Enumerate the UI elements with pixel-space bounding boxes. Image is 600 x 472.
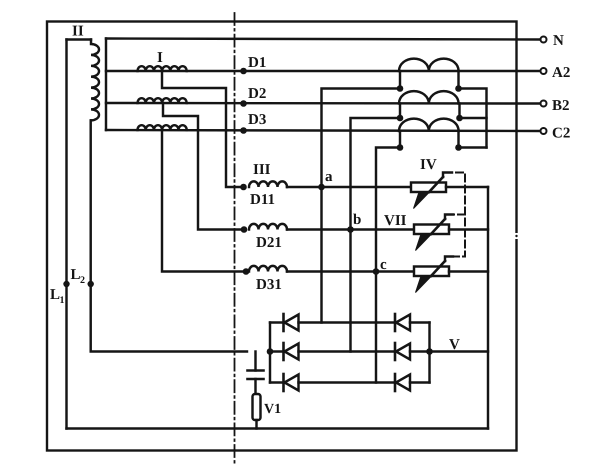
node a	[318, 169, 333, 190]
transformer T2 winding on B2	[397, 91, 463, 121]
mechanical gang coupling (dashed)	[453, 173, 465, 257]
terminal A2	[541, 65, 571, 81]
node V output	[426, 337, 488, 355]
svg-text:1: 1	[60, 295, 65, 306]
wire L2 line (winding II to rectifier)	[91, 121, 247, 352]
diode V1c (left stack bottom)	[270, 374, 395, 391]
node D1	[240, 55, 266, 74]
svg-text:III: III	[253, 162, 271, 178]
inductor I phase coil 2	[138, 98, 187, 103]
resistor V1	[253, 394, 282, 429]
svg-text:D11: D11	[250, 192, 275, 208]
wire varistor IV right lead	[446, 186, 488, 188]
inductor I phase coil 1	[138, 50, 187, 71]
wire node a to rectifier row 1	[320, 187, 322, 323]
svg-text:V1: V1	[264, 402, 281, 417]
wire node c to rectifier row 3	[375, 272, 377, 383]
capacitor C (filter)	[248, 352, 264, 395]
wire T3 left lead to node c	[376, 148, 400, 272]
diode V2c (right stack bottom)	[395, 374, 430, 391]
diode V2b (right stack middle)	[395, 343, 430, 360]
svg-text:II: II	[72, 24, 84, 40]
svg-text:L: L	[50, 287, 60, 303]
wire varistor VII right lead	[449, 228, 488, 230]
wire node b to rectifier row 2	[349, 230, 351, 352]
wire varistor third right lead	[449, 270, 488, 272]
wire D3/C2 phase line	[106, 130, 540, 131]
wire T2 right lead to star point	[460, 117, 487, 119]
wire tap of coil 1 to row a	[162, 71, 244, 187]
wire tap of coil 3 to row c	[162, 130, 246, 272]
varistor third (nonlinear resistor, phase c)	[414, 257, 453, 293]
wire neutral N line	[106, 39, 540, 40]
svg-text:B2: B2	[552, 98, 570, 114]
wire right diode anode bus	[428, 323, 430, 383]
wire row b	[287, 228, 414, 230]
wire T1 right lead to star point	[459, 89, 487, 148]
svg-text:D21: D21	[256, 235, 282, 251]
diode V1a (left stack top)	[270, 314, 395, 331]
wire varistor output bus	[487, 187, 489, 429]
wire D1/A2 phase line	[106, 70, 540, 72]
svg-text:I: I	[157, 50, 163, 66]
wire T1 left lead to node a	[322, 89, 401, 188]
svg-text:L: L	[71, 267, 81, 283]
terminal N	[541, 33, 565, 49]
varistor IV (nonlinear resistor, phase a)	[411, 157, 452, 209]
wire L1 left line	[65, 40, 67, 429]
svg-text:2: 2	[80, 275, 85, 286]
wire left diode cathode bus	[269, 323, 271, 383]
inductor D31 winding on row c	[243, 266, 287, 293]
node D3	[240, 112, 266, 134]
svg-text:C2: C2	[552, 126, 570, 142]
node cathode bus junction	[267, 348, 274, 355]
svg-text:V: V	[449, 337, 460, 353]
inductor III / D11 winding on row a	[240, 162, 287, 208]
inductor I phase coil 3	[138, 125, 187, 130]
terminal B2	[541, 98, 570, 114]
diode V2a (right stack top)	[395, 314, 430, 331]
svg-text:N: N	[553, 33, 564, 49]
wire row a	[287, 186, 411, 188]
svg-text:b: b	[353, 212, 361, 228]
inductor D21 winding on row b	[241, 224, 287, 251]
svg-text:IV: IV	[420, 157, 437, 173]
svg-text:D1: D1	[248, 55, 266, 71]
node L2	[71, 267, 94, 287]
node D2	[240, 86, 266, 107]
wire T3 right lead to star point	[459, 146, 487, 148]
wire neutral bus	[105, 39, 107, 131]
node L1	[50, 281, 70, 306]
varistor VII (nonlinear resistor, phase b)	[384, 213, 453, 251]
wire D2/B2 phase line	[106, 102, 540, 105]
svg-text:c: c	[380, 257, 387, 273]
svg-text:D2: D2	[248, 86, 266, 102]
svg-text:a: a	[325, 169, 333, 185]
svg-text:D31: D31	[256, 277, 282, 293]
wire row c	[287, 270, 414, 272]
transformer T3 winding on C2	[397, 119, 462, 151]
diode V1b (left stack middle)	[270, 343, 395, 360]
node c	[373, 257, 387, 275]
svg-text:D3: D3	[248, 112, 266, 128]
svg-text:A2: A2	[552, 65, 570, 81]
inductor II (vertical winding)	[67, 24, 100, 121]
wire tap of coil 2 to row b	[163, 103, 244, 230]
wire bottom return	[67, 427, 489, 429]
svg-text:VII: VII	[384, 213, 407, 229]
node b	[347, 212, 361, 233]
terminal C2	[541, 126, 571, 142]
wire T2 left lead to node b	[351, 118, 401, 230]
transformer T1 winding on A2	[397, 59, 462, 92]
